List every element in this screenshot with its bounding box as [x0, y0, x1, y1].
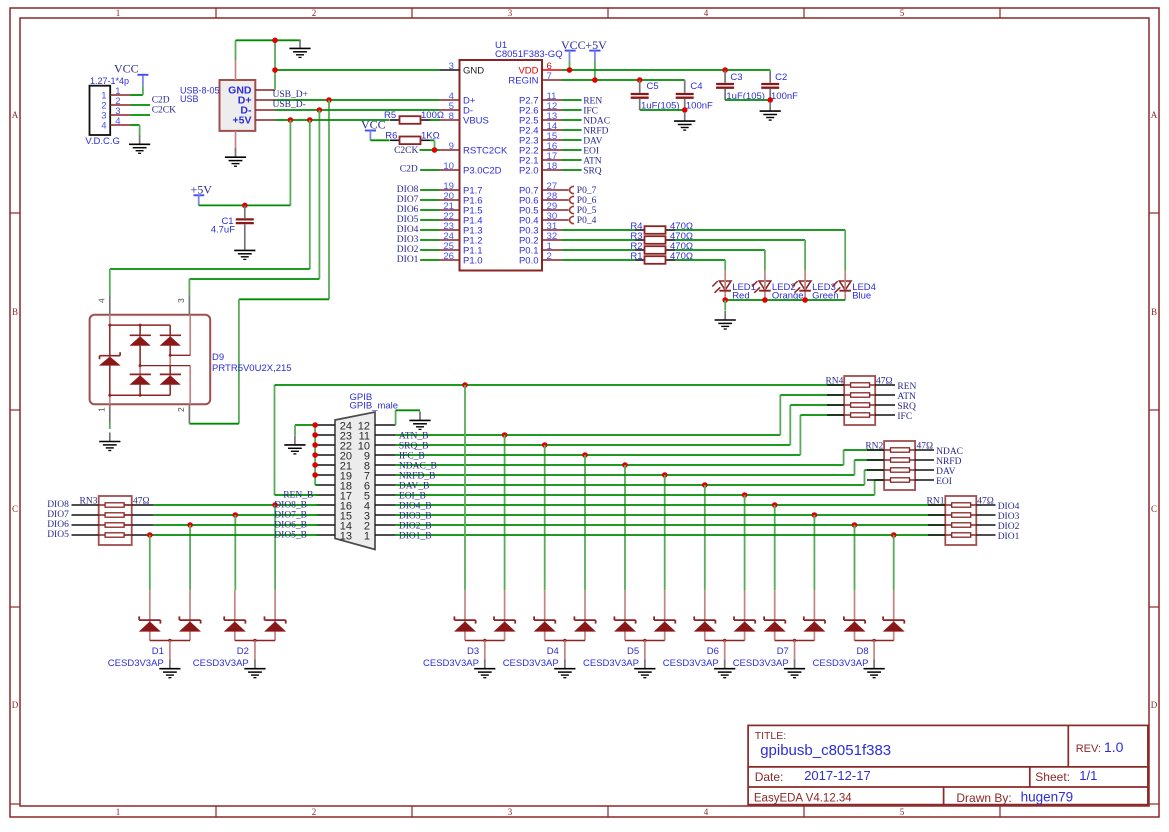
- junction DIO2_B riser: [852, 522, 858, 528]
- svg-text:4: 4: [101, 120, 106, 131]
- GPIB pin 23 (left): [316, 434, 335, 436]
- svg-text:C: C: [1151, 504, 1157, 514]
- wire R3 to LED: [675, 239, 805, 241]
- wire LED1 to ground: [724, 300, 726, 311]
- junction LED2: [762, 297, 768, 303]
- GPIB pin 19 (left): [316, 474, 335, 476]
- U1 pin 17 (P2.1): [542, 159, 562, 161]
- svg-text:TITLE:: TITLE:: [755, 730, 787, 742]
- wire DIO7 to U1: [420, 199, 439, 201]
- wire U1 P0.1 to R2: [562, 249, 635, 251]
- svg-text:5: 5: [900, 8, 905, 18]
- ground (USB bottom): [235, 148, 237, 157]
- svg-text:C: C: [12, 504, 18, 514]
- wire DIO7_B riser to diode: [234, 515, 236, 590]
- svg-text:3: 3: [176, 298, 186, 303]
- connector GPIB GPIB_male body: [335, 412, 375, 550]
- resistor network RN2 47R: [884, 441, 915, 490]
- svg-text:GND: GND: [463, 66, 484, 77]
- wire USB_D+ (USB D+ to chip D+): [275, 99, 440, 101]
- wire RN4 out IFC: [875, 414, 895, 416]
- wire SRQ_B riser to diode: [544, 445, 546, 590]
- svg-text:A: A: [12, 110, 19, 120]
- wire RN3 out DIO7_B: [132, 514, 154, 516]
- wire U1 to ATN: [562, 159, 582, 161]
- ground (USB shield): [299, 39, 301, 48]
- wire NRFD_B riser to diode: [664, 475, 666, 590]
- junction DIO6_B riser: [187, 522, 193, 528]
- svg-text:+5V: +5V: [233, 115, 252, 127]
- resistor R3: [635, 239, 645, 241]
- diode D2 CESD3V3AP (pair): [234, 590, 236, 640]
- ground (D7): [794, 660, 796, 669]
- wire C5 bottom to C4: [640, 109, 685, 111]
- svg-text:2: 2: [312, 807, 317, 817]
- junction C2 ground: [767, 97, 773, 103]
- wire RN1 out DIO1: [976, 534, 995, 536]
- wire RN4 out SRQ: [875, 404, 895, 406]
- GPIB pin 2 (right): [375, 524, 396, 526]
- junction SRQ_B riser: [542, 442, 548, 448]
- svg-text:DIO5: DIO5: [47, 530, 69, 540]
- junction USB_D- riser: [317, 107, 323, 113]
- wire GND vertical to USB GND pin: [274, 40, 276, 90]
- D9 right column diode (top): [169, 325, 171, 336]
- USB shield pin (bottom): [235, 131, 237, 151]
- net port P0_5: [570, 206, 574, 213]
- junction USB_D+ riser: [326, 97, 332, 103]
- svg-text:USB_D-: USB_D-: [273, 100, 306, 110]
- wire DIO8 to U1: [420, 189, 439, 191]
- svg-text:4: 4: [704, 8, 709, 18]
- svg-text:1: 1: [116, 8, 121, 18]
- svg-text:DIO2: DIO2: [998, 522, 1020, 532]
- resistor R2: [635, 249, 645, 251]
- GPIB pin 8 (right): [375, 464, 396, 466]
- GPIB pin 14 (left): [316, 524, 335, 526]
- svg-text:DIO3: DIO3: [998, 512, 1020, 522]
- junction DIO4_B riser: [772, 502, 778, 508]
- U1 pin 8 (VBUS): [440, 119, 460, 121]
- connector P1 1.27-1*4p: [90, 86, 111, 135]
- wire SRQ_B: [396, 444, 791, 446]
- wire REN riser to diode D3: [464, 385, 466, 590]
- connector P1 pin 3: [110, 114, 130, 116]
- wire C2D to chip pin10: [420, 169, 439, 171]
- svg-text:R1: R1: [630, 251, 642, 262]
- GPIB pin 5 (right): [375, 494, 396, 496]
- USB pin D+ stub: [255, 99, 275, 101]
- RN2 resistor 2: [867, 459, 884, 461]
- wire RN3 out DIO5_B: [132, 534, 154, 536]
- wire VDD rail: [562, 69, 770, 71]
- svg-text:IFC: IFC: [897, 412, 912, 422]
- RN4 resistor 3: [827, 404, 844, 406]
- svg-text:DIO4_B: DIO4_B: [399, 501, 432, 511]
- svg-text:Drawn By:: Drawn By:: [956, 791, 1011, 805]
- USB pin +5V stub: [255, 119, 275, 121]
- svg-text:1: 1: [364, 531, 370, 543]
- junction DAV_B riser: [702, 482, 708, 488]
- ground (C4): [684, 112, 686, 121]
- svg-text:DIO5: DIO5: [397, 215, 419, 225]
- svg-text:P0_5: P0_5: [577, 206, 597, 216]
- svg-text:DIO1: DIO1: [397, 255, 419, 265]
- wire DIO5 to U1: [420, 219, 439, 221]
- ground (GPIB left): [294, 436, 296, 445]
- LED LED2 (Orange): [759, 281, 771, 290]
- svg-text:D4: D4: [547, 646, 559, 657]
- wire U1 to SRQ: [562, 169, 582, 171]
- svg-text:NDAC: NDAC: [583, 116, 610, 126]
- svg-text:P0_6: P0_6: [577, 196, 597, 206]
- svg-text:SRQ: SRQ: [583, 166, 602, 176]
- wire ATN_B: [396, 434, 781, 436]
- GPIB pin 9 (right): [375, 454, 396, 456]
- diode D8 CESD3V3AP (pair): [854, 590, 856, 640]
- diode D3 CESD3V3AP (pair): [464, 590, 466, 640]
- svg-text:P0_7: P0_7: [577, 186, 597, 196]
- svg-text:C2: C2: [775, 72, 787, 83]
- svg-text:4: 4: [704, 807, 709, 817]
- svg-text:ATN: ATN: [583, 156, 602, 166]
- wire U1 to NRFD: [562, 129, 582, 131]
- svg-text:1.0: 1.0: [1104, 739, 1124, 755]
- svg-text:Blue: Blue: [852, 290, 871, 301]
- wire P1 pin2: [130, 104, 150, 106]
- wire GPIB pin12 to ground: [395, 410, 397, 425]
- wire R4 to LED: [675, 229, 845, 231]
- wire U1 to EOI: [562, 149, 582, 151]
- title block: [748, 725, 1148, 804]
- wire RN1 out DIO2: [976, 524, 995, 526]
- svg-text:hugen79: hugen79: [1021, 790, 1074, 805]
- svg-text:gpibusb_c8051f383: gpibusb_c8051f383: [760, 742, 891, 759]
- wire U1 to NDAC: [562, 119, 582, 121]
- wire USB +5V to R5: [275, 119, 390, 121]
- svg-text:USB: USB: [180, 94, 199, 104]
- D9 top rail: [110, 324, 170, 326]
- LED LED1 (Red): [719, 281, 731, 290]
- svg-text:Sheet:: Sheet:: [1035, 770, 1070, 784]
- net port P0_6: [570, 196, 574, 203]
- svg-text:DIO4: DIO4: [397, 225, 419, 235]
- GPIB pin 15 (left): [316, 514, 335, 516]
- svg-text:NRFD_B: NRFD_B: [399, 471, 435, 481]
- junction USB shield/GND: [272, 38, 278, 44]
- svg-text:4: 4: [97, 298, 107, 303]
- svg-text:1: 1: [116, 807, 121, 817]
- svg-text:EOI: EOI: [936, 477, 952, 487]
- svg-text:10: 10: [443, 161, 454, 172]
- wire DIO5_B riser to diode: [149, 535, 151, 590]
- U1 pin 26 (P1.0): [440, 259, 460, 261]
- svg-text:4.7uF: 4.7uF: [211, 225, 235, 236]
- net port P0_7: [570, 186, 575, 193]
- USB pin GND stub: [255, 89, 275, 91]
- U1 pin 9 (RSTC2CK): [440, 149, 460, 151]
- svg-text:9: 9: [449, 141, 454, 152]
- GPIB pin 4 (right): [375, 504, 396, 506]
- wire RN1 out DIO3: [976, 514, 995, 516]
- svg-text:D6: D6: [707, 646, 719, 657]
- svg-text:8: 8: [449, 111, 454, 122]
- wire R1 to LED: [675, 259, 725, 261]
- svg-text:18: 18: [547, 161, 558, 172]
- wire VDD rail corner to C2: [769, 70, 771, 72]
- svg-text:RN4: RN4: [825, 376, 843, 386]
- svg-text:3: 3: [508, 807, 513, 817]
- svg-text:ATN_B: ATN_B: [399, 431, 429, 441]
- wire RN2 out EOI: [915, 479, 934, 481]
- svg-text:CESD3V3AP: CESD3V3AP: [663, 658, 719, 669]
- svg-text:DIO7: DIO7: [47, 510, 69, 520]
- ground (P1 pin4): [139, 135, 141, 144]
- svg-text:C2CK: C2CK: [152, 105, 176, 115]
- svg-text:RN2: RN2: [865, 441, 883, 451]
- svg-text:C3: C3: [730, 72, 742, 83]
- connector USB USB-8-05: [220, 80, 256, 131]
- svg-text:DIO4: DIO4: [998, 502, 1020, 512]
- junction GPIB left bus y475: [312, 472, 318, 478]
- resistor network RN4 47R: [844, 376, 875, 425]
- svg-text:47Ω: 47Ω: [977, 496, 994, 506]
- wire DAV to RN2: [864, 470, 866, 485]
- wire U1 to DAV: [562, 139, 582, 141]
- junction REN riser: [462, 382, 468, 388]
- wire DIO3 to U1: [420, 239, 439, 241]
- U1 pin 1 (P0.1): [542, 249, 562, 251]
- wire DIO4_B riser to diode: [774, 505, 776, 590]
- D9 mid rail to pin3: [169, 354, 172, 357]
- U1 pin 4 (D+): [440, 99, 460, 101]
- svg-text:NRFD: NRFD: [583, 126, 608, 136]
- U1 pin 3 (GND): [440, 69, 460, 71]
- svg-text:SRQ_B: SRQ_B: [399, 441, 429, 451]
- svg-text:7: 7: [547, 71, 552, 82]
- ground (D2): [254, 660, 256, 669]
- ground (D1): [169, 660, 171, 669]
- RN4 resistor 1: [827, 384, 844, 386]
- GPIB pin 12 (right): [375, 424, 396, 426]
- U1 pin 19 (P1.7): [440, 189, 460, 191]
- wire NRFD_B: [396, 474, 855, 476]
- svg-text:DIO8_B: DIO8_B: [274, 501, 307, 511]
- svg-text:REGIN: REGIN: [508, 76, 538, 87]
- junction IFC_B riser: [582, 452, 588, 458]
- wire USB_D- riser to D9 pin3: [318, 110, 320, 279]
- svg-text:DIO5_B: DIO5_B: [274, 531, 307, 541]
- wire C2CK to chip pin9: [420, 149, 440, 151]
- svg-text:D3: D3: [467, 646, 479, 657]
- wire DIO4 to U1: [420, 229, 439, 231]
- RN1 resistor 1: [928, 504, 945, 506]
- RN3 resistor 3: [99, 524, 105, 526]
- GPIB pin 18 (left): [316, 484, 335, 486]
- capacitor C5: [639, 80, 641, 93]
- diode D7 CESD3V3AP (pair): [774, 590, 776, 640]
- wire C3 bottom to C2: [725, 99, 770, 101]
- svg-text:1/1: 1/1: [1079, 768, 1097, 783]
- wire DIO4_B: [396, 504, 946, 506]
- svg-text:CESD3V3AP: CESD3V3AP: [108, 658, 164, 669]
- USB shield pin (top): [235, 60, 237, 80]
- wire GND to chip pin3: [275, 69, 440, 71]
- U1 pin 10 (P3.0C2D): [440, 169, 460, 171]
- U1 pin 20 (P1.6): [440, 199, 460, 201]
- svg-text:P2.0: P2.0: [519, 166, 539, 177]
- wire EOI_B riser to diode: [744, 495, 746, 590]
- wire RN3 out DIO8_B: [132, 504, 154, 506]
- wire REN trunk (GPIB pin17 to RN4): [275, 384, 845, 386]
- svg-text:5: 5: [900, 807, 905, 817]
- ground (D3): [484, 660, 486, 669]
- junction LED3: [802, 297, 808, 303]
- U1 pin 11 (P2.7): [542, 99, 562, 101]
- svg-text:NDAC: NDAC: [936, 447, 963, 457]
- wire U1 to REN: [562, 99, 582, 101]
- connector P1 pin 1: [110, 94, 130, 96]
- D9 center column diode (bottom): [139, 364, 142, 367]
- RN3 resistor 1: [99, 504, 105, 506]
- svg-text:EOI_B: EOI_B: [399, 491, 426, 501]
- svg-text:D: D: [12, 700, 19, 710]
- diode D4 CESD3V3AP (pair): [544, 590, 546, 640]
- wire DIO8 to RN3: [72, 504, 99, 506]
- svg-text:DIO1: DIO1: [998, 532, 1020, 542]
- GPIB pin 10 (right): [375, 444, 396, 446]
- svg-text:2: 2: [312, 8, 317, 18]
- svg-text:D2: D2: [237, 646, 249, 657]
- RN2 resistor 3: [867, 469, 884, 471]
- svg-text:VBUS: VBUS: [463, 116, 489, 127]
- svg-text:1: 1: [97, 407, 107, 412]
- D9 right column diode (bottom): [169, 366, 171, 376]
- connector P1 pin 4: [110, 124, 130, 126]
- svg-text:IFC_B: IFC_B: [399, 451, 425, 461]
- wire U1 P0.0 to R1: [562, 259, 635, 261]
- RN3 resistor 2: [99, 514, 105, 516]
- wire IFC_B riser to diode: [584, 455, 586, 590]
- wire D9 pin1 to ground: [109, 423, 111, 429]
- U1 pin 29 (P0.5): [542, 209, 569, 211]
- svg-text:PRTR5V0U2X,215: PRTR5V0U2X,215: [212, 363, 292, 374]
- wire ATN to RN4: [779, 395, 781, 435]
- svg-text:ATN: ATN: [897, 392, 916, 402]
- junction DIO8_B riser: [272, 502, 278, 508]
- svg-text:DIO6_B: DIO6_B: [274, 521, 307, 531]
- capacitor C1: [244, 206, 246, 219]
- USB pin D- stub: [255, 109, 275, 111]
- U1 pin 21 (P1.5): [440, 209, 460, 211]
- GPIB pin 11 (right): [375, 434, 396, 436]
- junction +5V flag: [592, 77, 598, 83]
- svg-text:2017-12-17: 2017-12-17: [804, 768, 871, 783]
- wire DIO1 to U1: [420, 259, 439, 261]
- junction C3: [722, 67, 728, 73]
- wire RN4 out REN: [875, 384, 895, 386]
- wire LED cathode rail: [725, 299, 845, 301]
- U1 pin 30 (P0.4): [542, 219, 569, 221]
- svg-text:EasyEDA V4.12.34: EasyEDA V4.12.34: [754, 793, 852, 805]
- junction GPIB left bus y465: [312, 462, 318, 468]
- wire NRFD to RN2: [854, 460, 856, 475]
- wire NDAC_B riser to diode: [624, 465, 626, 590]
- svg-text:CESD3V3AP: CESD3V3AP: [503, 658, 559, 669]
- wire R5 to chip VBUS: [430, 119, 440, 121]
- wire DIO1_B riser to diode: [893, 535, 895, 590]
- svg-text:DIO8: DIO8: [47, 500, 69, 510]
- wire R6 to C2CK node: [430, 139, 435, 141]
- wire P1 pin1 to VCC: [130, 94, 143, 96]
- svg-text:3: 3: [508, 8, 513, 18]
- resistor R4: [635, 229, 645, 231]
- power flag VCC (P1): [142, 76, 144, 86]
- RN3 resistor 4: [99, 534, 105, 536]
- resistor R1: [635, 259, 645, 261]
- svg-text:DAV: DAV: [583, 136, 602, 146]
- svg-text:RN3: RN3: [80, 496, 98, 506]
- GPIB pin 21 (left): [316, 464, 335, 466]
- svg-text:VCC: VCC: [361, 118, 386, 132]
- ground (D8): [873, 660, 875, 669]
- svg-text:2: 2: [547, 251, 552, 262]
- ground (D4): [564, 660, 566, 669]
- U1 pin 16 (P2.2): [542, 149, 562, 151]
- svg-text:+5V: +5V: [191, 182, 213, 196]
- ground (C2): [769, 102, 771, 111]
- D9 zener diode (left): [100, 355, 121, 357]
- wire EOI_B: [396, 494, 875, 496]
- svg-text:REN: REN: [583, 96, 602, 106]
- junction DIO7_B riser: [233, 512, 239, 518]
- ground (GPIB pin12): [419, 411, 421, 420]
- wire DIO2 to U1: [420, 249, 439, 251]
- junction C4 ground: [682, 107, 688, 113]
- wire +5V rail: [199, 204, 291, 206]
- junction GPIB left bus y425: [312, 422, 318, 428]
- U1 pin 32 (P0.2): [542, 239, 562, 241]
- diode D6 CESD3V3AP (pair): [704, 590, 706, 640]
- U1 pin 12 (P2.6): [542, 109, 562, 111]
- U1 pin 24 (P1.2): [440, 239, 460, 241]
- wire U1 to IFC: [562, 109, 582, 111]
- svg-text:D1: D1: [152, 646, 164, 657]
- junction +5V D9 riser: [307, 117, 313, 123]
- svg-text:EOI: EOI: [583, 146, 599, 156]
- RN1 resistor 4: [928, 534, 945, 536]
- svg-text:REN: REN: [897, 382, 916, 392]
- svg-text:P0_4: P0_4: [577, 216, 597, 226]
- svg-text:R6: R6: [385, 131, 397, 142]
- svg-text:DIO2_B: DIO2_B: [399, 521, 432, 531]
- wire +5V riser to +5V rail: [289, 120, 291, 205]
- wire DIO1_B: [396, 534, 946, 536]
- svg-text:DIO6: DIO6: [397, 205, 419, 215]
- GPIB pin 7 (right): [375, 474, 396, 476]
- U1 pin 13 (P2.5): [542, 119, 562, 121]
- diode D1 CESD3V3AP (pair): [149, 590, 151, 640]
- resistor network RN3 47R: [99, 496, 132, 545]
- connector P1 pin 2: [110, 104, 130, 106]
- svg-text:1.27-1*4p: 1.27-1*4p: [90, 76, 129, 86]
- svg-text:47Ω: 47Ω: [133, 496, 150, 506]
- wire USB shield to ground / GND rail: [235, 40, 237, 60]
- IC U1 C8051F383-GQ body: [460, 60, 543, 271]
- wire USB_D+ riser to D9 pin2: [328, 100, 330, 299]
- svg-text:Date:: Date:: [755, 770, 784, 784]
- svg-text:13: 13: [340, 531, 352, 543]
